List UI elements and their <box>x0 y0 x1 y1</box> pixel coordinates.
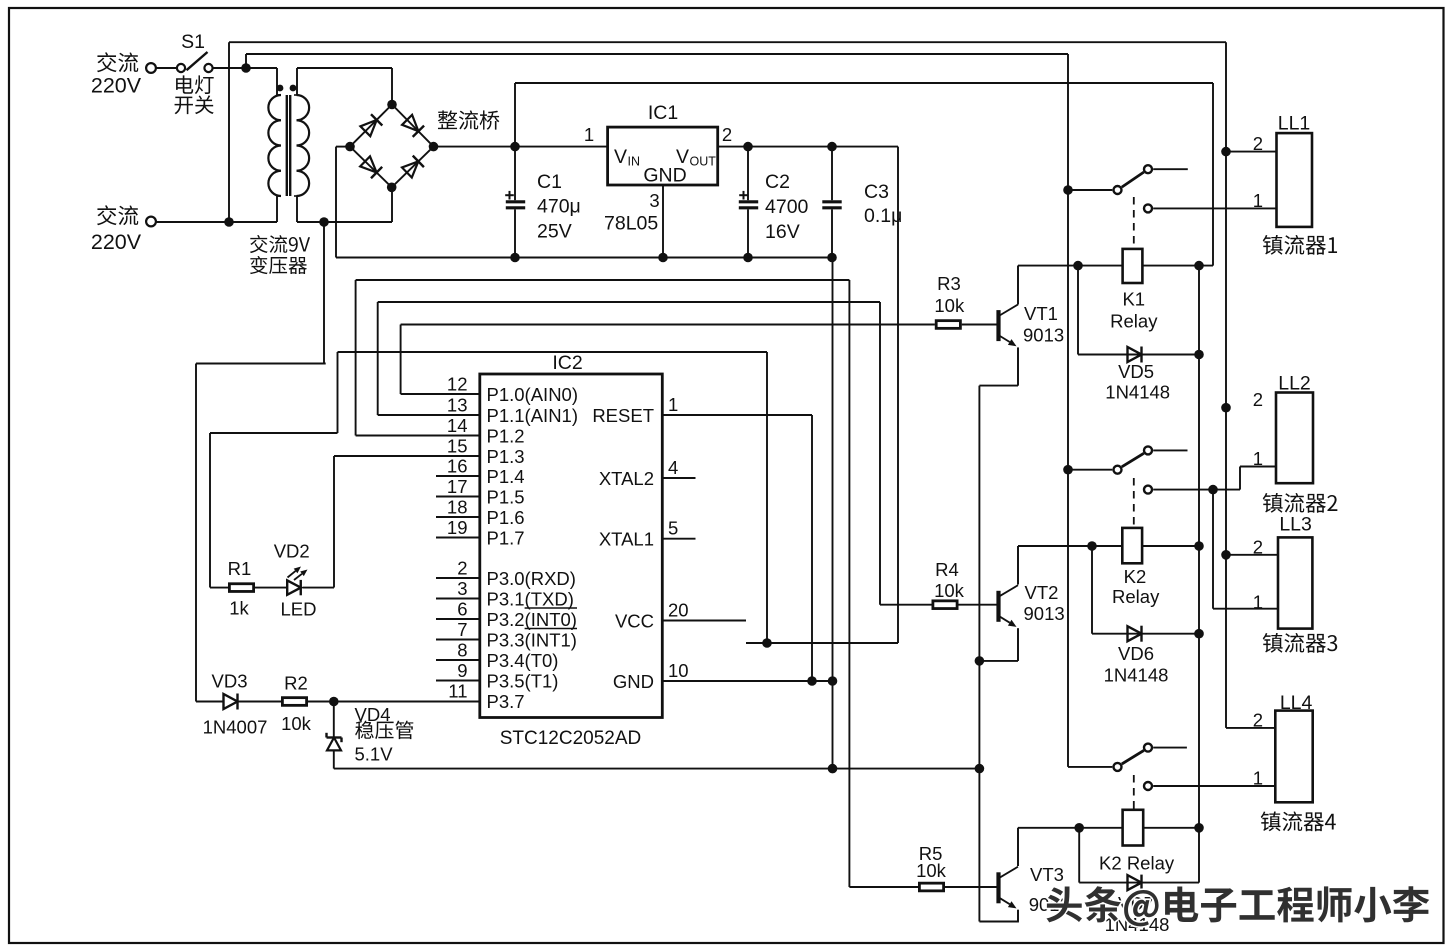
svg-text:GND: GND <box>613 671 654 692</box>
svg-text:VD6: VD6 <box>1118 643 1154 664</box>
svg-text:C3: C3 <box>864 181 889 203</box>
svg-text:16V: 16V <box>765 221 800 243</box>
svg-text:78L05: 78L05 <box>604 213 658 235</box>
svg-text:P3.2(INT0): P3.2(INT0) <box>487 609 577 630</box>
svg-text:LED: LED <box>281 599 317 620</box>
svg-text:18: 18 <box>447 497 468 518</box>
svg-text:1: 1 <box>1253 591 1263 612</box>
svg-text:1: 1 <box>584 124 594 145</box>
svg-text:P3.7: P3.7 <box>487 691 525 712</box>
svg-text:4700: 4700 <box>765 196 809 218</box>
svg-text:R2: R2 <box>284 673 308 694</box>
svg-text:K1: K1 <box>1122 289 1145 310</box>
svg-text:1k: 1k <box>229 598 249 619</box>
svg-text:1N4007: 1N4007 <box>203 717 268 738</box>
svg-text:14: 14 <box>447 415 468 436</box>
svg-text:IC1: IC1 <box>648 102 678 124</box>
svg-text:OUT: OUT <box>690 155 717 169</box>
svg-text:6: 6 <box>457 599 467 620</box>
svg-text:10k: 10k <box>934 580 965 601</box>
svg-text:P1.1(AIN1): P1.1(AIN1) <box>487 405 579 426</box>
svg-text:XTAL2: XTAL2 <box>599 468 654 489</box>
svg-text:P1.5: P1.5 <box>487 486 525 507</box>
svg-text:P3.5(T1): P3.5(T1) <box>487 670 559 691</box>
svg-text:P3.1(TXD): P3.1(TXD) <box>487 588 574 609</box>
svg-text:S1: S1 <box>181 31 205 53</box>
svg-text:10k: 10k <box>281 713 312 734</box>
svg-text:20: 20 <box>668 600 689 621</box>
svg-text:P3.3(INT1): P3.3(INT1) <box>487 629 577 650</box>
svg-text:10: 10 <box>668 660 689 681</box>
svg-text:1N4148: 1N4148 <box>1104 665 1169 686</box>
svg-text:13: 13 <box>447 395 468 416</box>
svg-text:VT2: VT2 <box>1025 582 1059 603</box>
svg-text:P1.2: P1.2 <box>487 425 525 446</box>
svg-text:3: 3 <box>457 578 467 599</box>
svg-text:R1: R1 <box>228 558 252 579</box>
svg-text:1: 1 <box>668 394 678 415</box>
svg-text:VD2: VD2 <box>274 541 310 562</box>
svg-text:V: V <box>614 146 627 168</box>
svg-text:C1: C1 <box>537 171 562 193</box>
svg-text:RESET: RESET <box>592 405 654 426</box>
svg-text:16: 16 <box>447 456 468 477</box>
svg-text:10k: 10k <box>916 860 947 881</box>
svg-text:0.1μ: 0.1μ <box>864 205 902 227</box>
svg-text:8: 8 <box>457 640 467 661</box>
svg-text:P1.0(AIN0): P1.0(AIN0) <box>487 384 579 405</box>
svg-text:C2: C2 <box>765 171 790 193</box>
svg-text:9: 9 <box>457 660 467 681</box>
svg-text:Relay: Relay <box>1112 586 1160 607</box>
svg-text:10k: 10k <box>934 295 965 316</box>
svg-text:2: 2 <box>1253 709 1263 730</box>
svg-text:P1.3: P1.3 <box>487 446 525 467</box>
svg-text:2: 2 <box>1253 389 1263 410</box>
svg-text:GND: GND <box>643 165 686 187</box>
svg-text:2: 2 <box>1253 536 1263 557</box>
svg-text:R3: R3 <box>937 273 961 294</box>
svg-text:11: 11 <box>448 681 467 702</box>
svg-text:12: 12 <box>447 374 468 395</box>
svg-text:15: 15 <box>447 436 468 457</box>
svg-text:VCC: VCC <box>615 610 654 631</box>
svg-text:LL1: LL1 <box>1278 113 1311 135</box>
svg-text:VT1: VT1 <box>1024 303 1058 324</box>
svg-text:LL3: LL3 <box>1279 514 1312 536</box>
svg-text:1: 1 <box>1253 190 1263 211</box>
svg-text:LL4: LL4 <box>1280 692 1313 714</box>
svg-text:5: 5 <box>668 518 678 539</box>
svg-text:VT3: VT3 <box>1030 864 1064 885</box>
svg-text:R4: R4 <box>935 559 959 580</box>
svg-text:5.1V: 5.1V <box>355 744 394 765</box>
svg-text:1: 1 <box>1253 448 1263 469</box>
svg-text:220V: 220V <box>91 230 142 254</box>
svg-text:7: 7 <box>457 619 467 640</box>
svg-text:XTAL1: XTAL1 <box>599 529 654 550</box>
svg-text:25V: 25V <box>537 221 572 243</box>
svg-text:9013: 9013 <box>1023 325 1064 346</box>
svg-text:Relay: Relay <box>1110 311 1158 332</box>
svg-text:220V: 220V <box>91 74 142 98</box>
svg-text:K2: K2 <box>1124 566 1147 587</box>
svg-text:LL2: LL2 <box>1278 373 1311 395</box>
svg-text:STC12C2052AD: STC12C2052AD <box>500 728 642 749</box>
svg-text:1: 1 <box>1253 768 1263 789</box>
svg-text:17: 17 <box>447 476 468 497</box>
svg-text:P1.4: P1.4 <box>487 466 525 487</box>
svg-text:IN: IN <box>628 155 641 169</box>
svg-text:1N4148: 1N4148 <box>1105 382 1170 403</box>
svg-text:K2 Relay: K2 Relay <box>1099 852 1175 873</box>
svg-text:P1.7: P1.7 <box>487 527 525 548</box>
svg-text:2: 2 <box>457 558 467 579</box>
svg-text:9013: 9013 <box>1024 603 1065 624</box>
svg-text:4: 4 <box>668 457 678 478</box>
svg-text:2: 2 <box>1253 133 1263 154</box>
svg-text:P3.0(RXD): P3.0(RXD) <box>487 568 576 589</box>
svg-text:P1.6: P1.6 <box>487 507 525 528</box>
svg-text:VD3: VD3 <box>212 671 248 692</box>
svg-text:2: 2 <box>722 124 732 145</box>
svg-text:3: 3 <box>649 190 659 211</box>
svg-text:470μ: 470μ <box>537 196 581 218</box>
svg-text:P3.4(T0): P3.4(T0) <box>487 650 559 671</box>
svg-text:IC2: IC2 <box>552 352 582 374</box>
svg-text:VD5: VD5 <box>1118 361 1154 382</box>
svg-text:19: 19 <box>447 517 468 538</box>
